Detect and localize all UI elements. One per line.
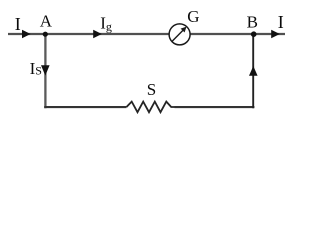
current arrow: Is downward on left branch xyxy=(41,65,50,75)
wire: bottom conductor, left of resistor S xyxy=(44,106,126,108)
galvanometer G: body circle xyxy=(169,24,190,45)
wire: left vertical branch from node A down xyxy=(44,34,46,108)
svg-text:B: B xyxy=(247,12,258,31)
wire: right vertical branch up to node B xyxy=(252,34,254,108)
galvanometer G: needle arrowhead xyxy=(181,27,187,33)
node B (junction dot) xyxy=(251,31,257,37)
galvanometer G: needle xyxy=(172,30,184,42)
svg-text:Ig: Ig xyxy=(100,13,112,33)
current arrow: Ig on top wire before galvanometer xyxy=(93,30,102,39)
wire: bottom conductor, right of resistor S xyxy=(175,106,255,108)
node A (junction dot) xyxy=(43,32,48,37)
resistor S (zigzag) xyxy=(127,102,175,113)
current arrow: upward on right branch toward node B xyxy=(249,66,258,76)
wire: top conductor, input lead through node A to galvanometer xyxy=(8,33,169,35)
svg-text:S: S xyxy=(147,80,156,99)
wire: top conductor, galvanometer to node B and output lead xyxy=(190,33,285,35)
current arrow: I leaving at right on top wire xyxy=(271,30,280,39)
svg-text:A: A xyxy=(40,12,53,31)
current arrow: I entering at left on top wire xyxy=(22,30,31,39)
svg-text:IS: IS xyxy=(30,59,42,78)
svg-text:I: I xyxy=(278,12,284,32)
svg-text:G: G xyxy=(187,7,199,26)
svg-text:I: I xyxy=(15,14,21,34)
